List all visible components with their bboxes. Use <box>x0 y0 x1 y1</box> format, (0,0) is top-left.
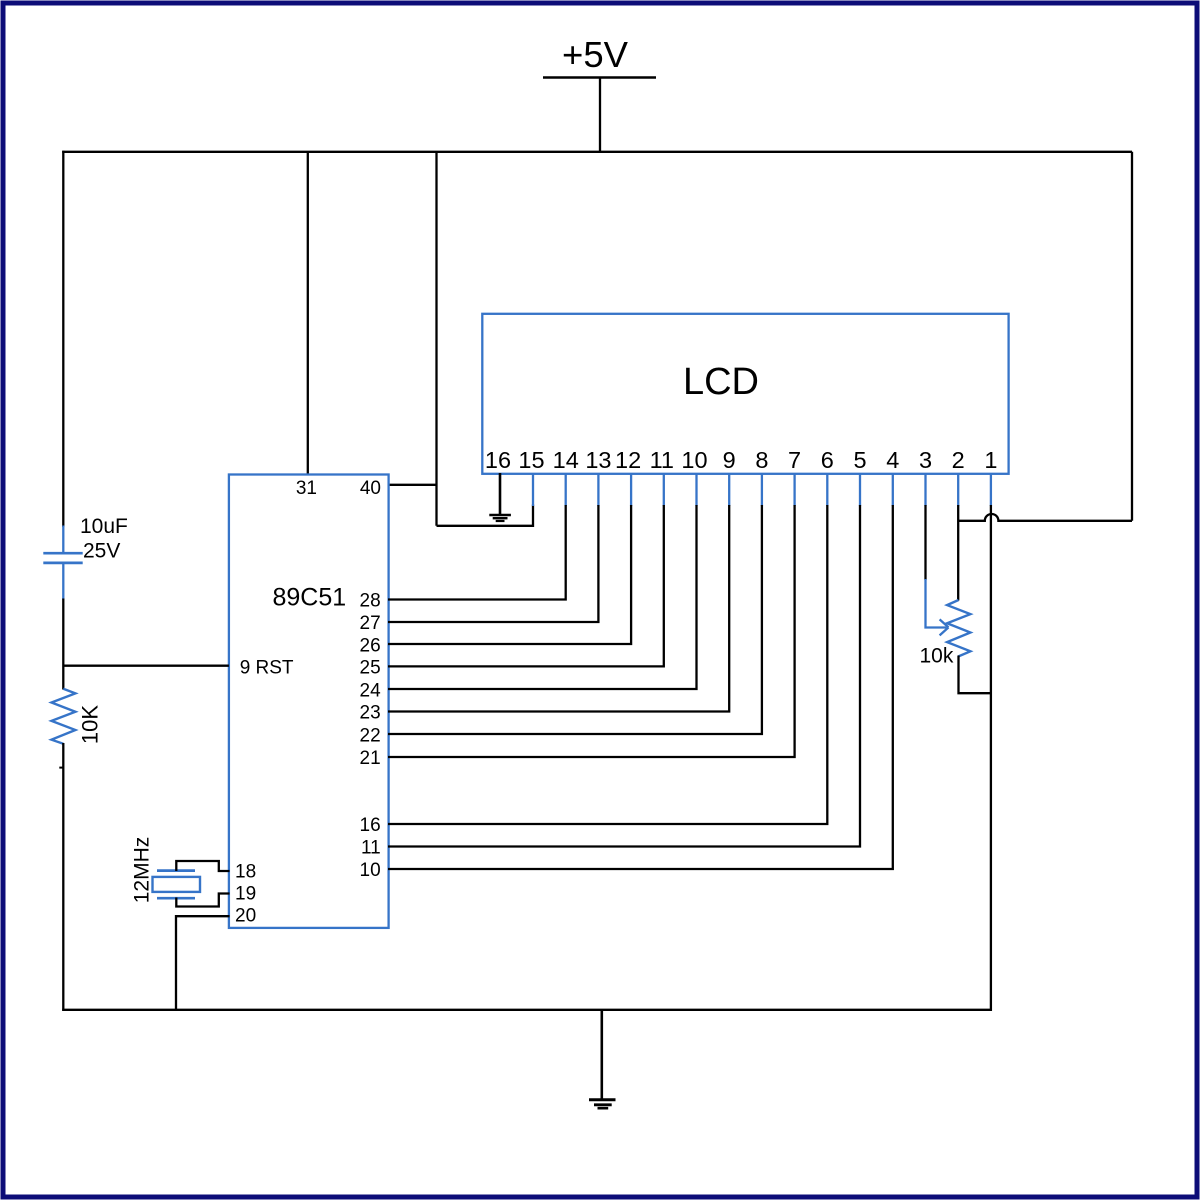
capacitor C1 10uF 25V <box>43 526 82 600</box>
wire pin16 to LCD pin6 <box>388 505 827 824</box>
wire RST to chip pin 9 <box>63 665 229 667</box>
ground at LCD pin 16 <box>489 473 511 521</box>
svg-text:25V: 25V <box>83 540 120 563</box>
wire to pin 31 <box>307 152 309 475</box>
svg-text:16: 16 <box>485 447 511 473</box>
svg-text:10k: 10k <box>920 645 954 668</box>
svg-text:9: 9 <box>723 447 736 473</box>
svg-text:14: 14 <box>553 447 579 473</box>
svg-text:12: 12 <box>615 447 641 473</box>
svg-text:26: 26 <box>360 636 381 657</box>
svg-text:13: 13 <box>585 447 611 473</box>
LCD pin 3 stub <box>924 474 926 506</box>
svg-text:20: 20 <box>235 906 256 927</box>
svg-text:5: 5 <box>853 447 866 473</box>
wire left rail middle <box>62 599 64 690</box>
wire pin25 to LCD pin11 <box>388 505 664 666</box>
resistor R1 10K <box>52 689 76 744</box>
potentiometer R2 10k body <box>947 600 970 656</box>
wire hop from LCD pin 2 to right rail <box>958 514 1132 521</box>
LCD pin 12 stub <box>630 474 632 506</box>
LCD pin 1 stub <box>990 474 992 506</box>
svg-text:18: 18 <box>235 862 256 883</box>
svg-text:LCD: LCD <box>683 361 759 403</box>
svg-text:27: 27 <box>360 613 381 634</box>
svg-text:31: 31 <box>296 478 317 499</box>
svg-text:+5V: +5V <box>562 34 629 75</box>
wire LCD pin 1 to bottom rail <box>990 505 992 1011</box>
svg-text:15: 15 <box>518 447 544 473</box>
svg-text:11: 11 <box>650 447 674 473</box>
svg-text:16: 16 <box>360 815 381 836</box>
crystal X1 12MHz <box>153 871 201 899</box>
svg-text:3: 3 <box>919 447 932 473</box>
wire pin21 to LCD pin7 <box>388 505 795 757</box>
LCD pin 4 stub <box>892 474 894 506</box>
wire LCD pin 3 upper black <box>924 505 926 580</box>
wire pin 20 to ground rail <box>176 916 230 1011</box>
wire +5V stem <box>599 78 601 153</box>
ground at bottom rail <box>589 1010 616 1108</box>
LCD pin 11 stub <box>663 474 665 506</box>
svg-text:89C51: 89C51 <box>273 584 347 612</box>
LCD pin 10 stub <box>695 474 697 506</box>
wire pin24 to LCD pin10 <box>388 505 697 689</box>
svg-text:8: 8 <box>755 447 768 473</box>
svg-text:7: 7 <box>788 447 801 473</box>
wire pot bottom to pin1 net <box>959 656 992 694</box>
LCD pin 9 stub <box>728 474 730 506</box>
svg-text:1: 1 <box>984 447 997 473</box>
wire under LCD to pin 15 <box>437 505 534 526</box>
svg-text:23: 23 <box>360 703 381 724</box>
wire pin26 to LCD pin12 <box>388 505 631 644</box>
svg-text:12MHz: 12MHz <box>131 837 154 904</box>
svg-text:10K: 10K <box>78 705 103 744</box>
svg-text:24: 24 <box>360 681 382 702</box>
potentiometer wiper arm <box>926 579 949 635</box>
wire LCD pin 2 to pot top <box>957 505 959 601</box>
wire crystal top to pin 18 <box>176 861 229 871</box>
wire pin28 to LCD pin14 <box>388 505 566 600</box>
LCD pin 6 stub <box>826 474 828 506</box>
wire bottom rail <box>62 1009 992 1011</box>
LCD pin 5 stub <box>859 474 861 506</box>
+5V supply symbol <box>543 34 656 78</box>
LCD pin 8 stub <box>761 474 763 506</box>
LCD pin 13 stub <box>597 474 599 506</box>
89C51 microcontroller U1 <box>229 475 389 928</box>
svg-text:6: 6 <box>821 447 834 473</box>
svg-text:4: 4 <box>886 447 899 473</box>
svg-text:22: 22 <box>360 726 381 747</box>
wire top rail <box>62 151 1132 153</box>
wire left rail lower <box>62 743 64 1011</box>
svg-text:10uF: 10uF <box>80 515 128 538</box>
wire pin27 to LCD pin13 <box>388 505 598 622</box>
svg-text:28: 28 <box>360 591 381 612</box>
svg-text:10: 10 <box>681 447 707 473</box>
wire crystal bottom to pin 19 <box>176 894 229 907</box>
LCD pin 14 stub <box>565 474 567 506</box>
wire pin10 to LCD pin4 <box>388 505 893 869</box>
wire pin23 to LCD pin9 <box>388 505 729 712</box>
LCD pin 7 stub <box>793 474 795 506</box>
wire pin22 to LCD pin8 <box>388 505 762 734</box>
LCD module <box>482 314 1008 474</box>
wire pin40 horizontal <box>388 484 437 486</box>
LCD pin 15 stub <box>532 474 534 506</box>
wire left rail upper (to capacitor) <box>62 151 64 527</box>
svg-text:40: 40 <box>360 478 381 499</box>
wire pin11 to LCD pin5 <box>388 505 860 847</box>
svg-text:9 RST: 9 RST <box>240 658 294 679</box>
svg-text:10: 10 <box>360 860 381 881</box>
wire right rail down <box>1131 152 1133 521</box>
junction tick on left rail <box>59 767 63 769</box>
svg-text:21: 21 <box>360 748 381 769</box>
svg-text:2: 2 <box>952 447 965 473</box>
svg-text:25: 25 <box>360 658 381 679</box>
svg-text:19: 19 <box>235 884 256 905</box>
svg-text:11: 11 <box>361 838 381 859</box>
LCD pin 2 stub <box>957 474 959 506</box>
wire VCC drop to pin40/pin15 <box>435 152 437 526</box>
